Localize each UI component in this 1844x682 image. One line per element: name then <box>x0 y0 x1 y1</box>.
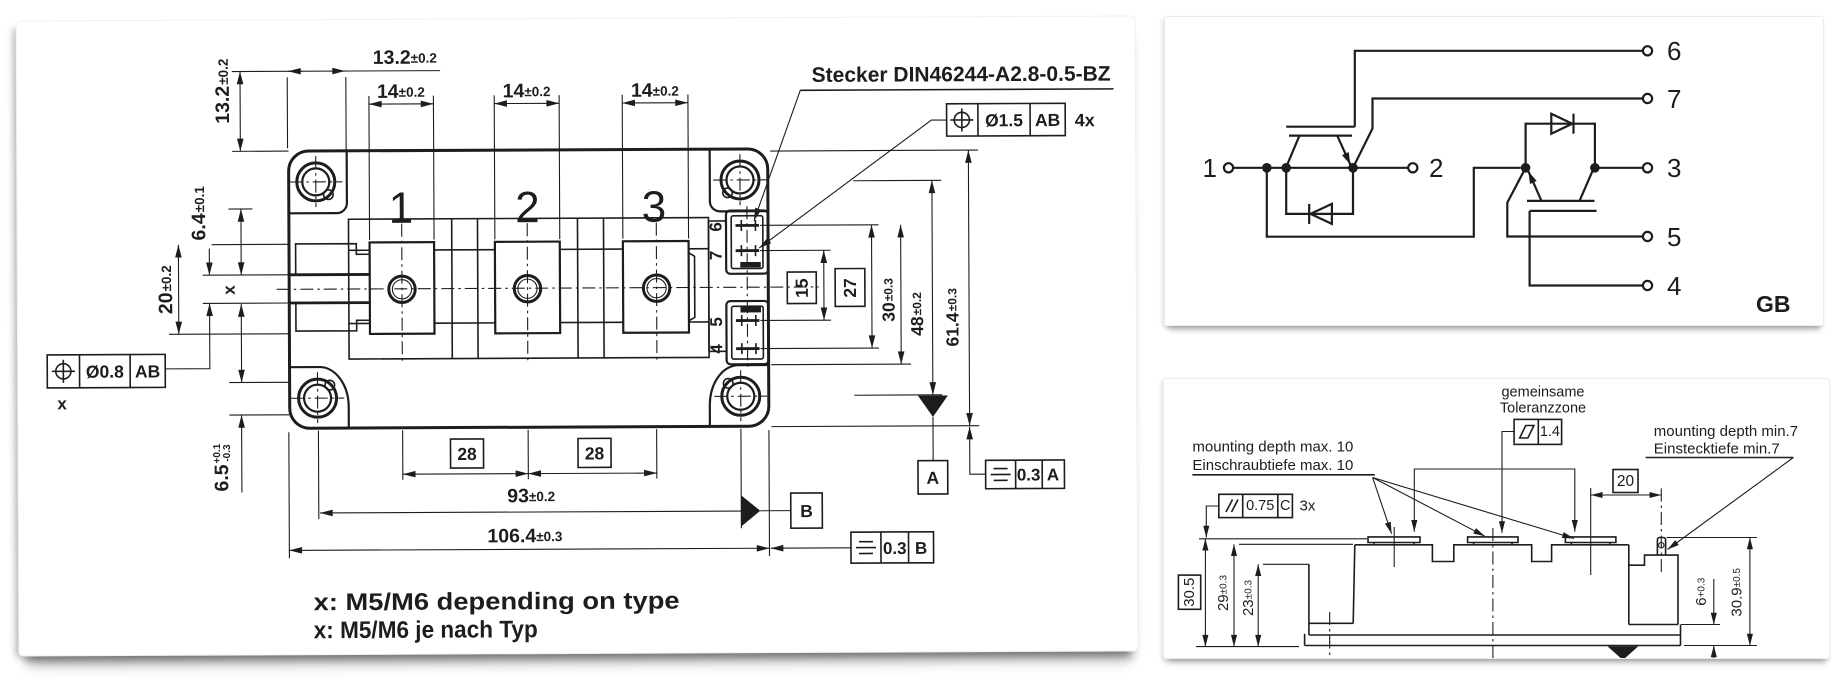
svg-text:1: 1 <box>389 184 414 233</box>
svg-text:5: 5 <box>707 317 726 327</box>
fin wall 1 <box>451 219 454 359</box>
dim 27 box label <box>835 268 865 306</box>
terminal 5 <box>1643 232 1652 241</box>
module top edge extension left <box>232 150 288 152</box>
diode D2 triangle <box>1551 114 1572 134</box>
dim 13.2 horizontal arrows <box>288 70 302 72</box>
key bar block 6/7 <box>740 262 761 267</box>
svg-text:5: 5 <box>1667 222 1681 252</box>
pin 6 blade <box>735 220 759 231</box>
svg-text:20: 20 <box>1617 473 1635 490</box>
diode D1 loop wires <box>1286 168 1353 214</box>
IGBT Q1 emitter leg with arrow <box>1337 136 1350 165</box>
svg-text:106.4±0.3: 106.4±0.3 <box>487 525 563 547</box>
svg-text:61.4±0.3: 61.4±0.3 <box>942 288 962 347</box>
frame 1.4 leader to pad2 <box>1502 432 1514 534</box>
dim 6.5 upper arrow / x lower column <box>240 304 242 382</box>
svg-text:6: 6 <box>1667 36 1681 66</box>
connector block 6/7 outer <box>726 210 768 273</box>
screw hole terminal 1 <box>389 276 416 303</box>
svg-text:93±0.2: 93±0.2 <box>507 485 555 507</box>
pin 7 blade <box>736 245 760 256</box>
svg-text:4: 4 <box>707 344 726 354</box>
corner block top-right <box>710 149 768 211</box>
Stecker underline <box>800 89 1113 90</box>
slot lines between blocks lower <box>349 322 709 324</box>
svg-text:4: 4 <box>1667 271 1681 301</box>
wire gate Q2 to pin 4 <box>1530 211 1643 286</box>
svg-text:30±0.3: 30±0.3 <box>878 278 898 322</box>
svg-text:Ø0.8: Ø0.8 <box>86 362 124 382</box>
fin wall 4 <box>602 218 605 358</box>
corner block bottom-left <box>290 367 349 428</box>
pin 5 extension line <box>760 319 830 321</box>
svg-text:15: 15 <box>792 278 812 298</box>
svg-text:20±0.2: 20±0.2 <box>155 265 177 314</box>
diode D1 cathode bar <box>1308 204 1310 224</box>
Stecker leader to pin 6 <box>753 90 800 220</box>
left mounting hole centerline <box>1329 612 1331 656</box>
dim 6+0.3 line upper <box>1713 579 1715 625</box>
dim 93 extension left <box>317 431 319 519</box>
IGBT Q1 collector leg <box>1287 136 1300 166</box>
svg-text:0.3: 0.3 <box>883 539 907 558</box>
svg-text:14±0.2: 14±0.2 <box>503 80 551 102</box>
svg-text:A: A <box>926 468 939 488</box>
connector block 5/4 inner <box>732 306 764 359</box>
terminal pad 1 <box>1368 537 1420 543</box>
svg-text:4x: 4x <box>1075 110 1095 130</box>
svg-text:2: 2 <box>1429 153 1443 183</box>
svg-text:GB: GB <box>1756 291 1791 317</box>
svg-text:Einschraubtiefe max. 10: Einschraubtiefe max. 10 <box>1192 457 1353 474</box>
datum B box <box>791 493 823 528</box>
module centerline <box>1492 528 1494 659</box>
chamfer pad right of terminal 3 <box>689 253 695 321</box>
leader fan 2 <box>1373 478 1485 537</box>
IGBT Q2 collector leg <box>1580 171 1593 201</box>
terminal slot thick lines <box>289 274 370 303</box>
node E (junction dot right-right) <box>1590 163 1600 173</box>
dim 15 box label <box>787 272 816 304</box>
svg-text:x: M5/M6 depending on type: x: M5/M6 depending on type <box>314 588 680 617</box>
dim 13.2 horizontal: extension block edge <box>345 77 347 150</box>
dim 14 #3 extensions <box>621 95 624 239</box>
svg-text:48±0.2: 48±0.2 <box>907 292 927 336</box>
fastening pin <box>1657 538 1665 556</box>
svg-text:13.2±0.2: 13.2±0.2 <box>373 47 437 69</box>
dim 28 box b <box>578 438 611 467</box>
pin 5 blade <box>736 315 760 326</box>
dim 14 #2 extensions <box>493 95 496 239</box>
wire node A to right half (long link) <box>1267 168 1521 237</box>
dim 28 extension t3 <box>656 429 658 478</box>
wire pin1 to node <box>1233 167 1262 169</box>
IGBT Q2 gate bar <box>1530 210 1597 212</box>
pad3 centerline / 20-dim extension <box>1590 488 1592 575</box>
terminal pad 2 <box>1468 537 1518 543</box>
leader fan 3 <box>1373 478 1574 539</box>
terminal block 3 <box>623 241 689 333</box>
dim 28 extension t2 <box>527 430 529 479</box>
terminal 1 centerline <box>401 224 404 363</box>
terminal pad 3 <box>1565 537 1616 543</box>
dim 29 line <box>1233 544 1235 646</box>
dim 30 extension bottom <box>771 363 911 366</box>
position frame 0.8 <box>47 354 165 388</box>
svg-text:B: B <box>800 501 813 521</box>
mounting hole top-right <box>713 154 766 205</box>
terminal 2 <box>1408 163 1417 172</box>
wire aux emitter Q2 to pin 5 <box>1507 168 1643 237</box>
diode D2 cathode bar <box>1572 114 1574 134</box>
dim 6+0.3 line lower <box>1713 646 1715 659</box>
svg-text:C: C <box>1280 498 1290 514</box>
dim 14 #2 line with arrows <box>494 102 559 104</box>
dim 28 extension t1 <box>402 430 404 479</box>
node D (junction dot right-left) <box>1521 163 1531 173</box>
left ext line L1 <box>228 208 252 210</box>
svg-text:gemeinsame: gemeinsame <box>1501 385 1584 401</box>
plate cut-out to connectors <box>708 221 726 351</box>
frame 0.3 A leader <box>970 439 986 474</box>
main horizontal centerline <box>277 287 819 289</box>
svg-text:1: 1 <box>1203 153 1217 183</box>
left ext line L4 <box>203 302 289 304</box>
terminal block 2 <box>495 242 560 334</box>
dim 106.4 extension left <box>288 432 291 558</box>
svg-text:x: M5/M6 je nach Typ: x: M5/M6 je nach Typ <box>314 616 538 644</box>
svg-text:AB: AB <box>135 361 160 381</box>
dim 30.9 extensions <box>1667 537 1757 539</box>
screw hole terminal 3 <box>643 275 670 302</box>
svg-text:28: 28 <box>457 444 477 464</box>
svg-text:Ø1.5: Ø1.5 <box>985 110 1023 130</box>
svg-text:1.4: 1.4 <box>1540 424 1560 440</box>
housing left wall <box>1353 545 1355 624</box>
dim 28 line b <box>528 472 656 475</box>
node A (junction dot) <box>1262 163 1272 173</box>
frame 1.5 leader to pin 7 <box>759 120 948 248</box>
svg-text:6.5+0.1-0.3: 6.5+0.1-0.3 <box>211 443 233 491</box>
dim 20 line <box>177 245 179 334</box>
parallelism frame // 0.75 C <box>1219 494 1293 517</box>
left pocket lower <box>296 303 370 331</box>
svg-text:27: 27 <box>840 278 860 298</box>
pin 4 blade <box>736 343 760 354</box>
IGBT Q1 body bar <box>1289 135 1352 137</box>
frame 0.3 B <box>851 532 934 563</box>
mounting hole bottom-left <box>291 372 344 423</box>
wire gate Q1 to pin 6 <box>1355 51 1643 127</box>
connector block 5/4 outer <box>726 301 768 364</box>
pin 7 extension line <box>760 249 830 251</box>
svg-text:30.9±0.5: 30.9±0.5 <box>1728 568 1745 617</box>
dim 15 line <box>823 250 825 320</box>
dim x upper arrow <box>208 249 210 275</box>
dim 28 line a <box>403 473 528 476</box>
baseplate <box>1305 625 1681 646</box>
leader to pin <box>1668 458 1794 550</box>
pin 6 extension line <box>760 224 878 227</box>
dim 48 line <box>931 180 934 394</box>
terminal 2 centerline <box>526 223 529 362</box>
flatness zone frame 1.4 <box>1514 419 1562 444</box>
module outline <box>289 149 769 428</box>
svg-text:13.2±0.2: 13.2±0.2 <box>212 59 234 124</box>
dim 6+0.3 extensions <box>1681 624 1720 626</box>
dim 93 extension right / datum B <box>740 429 742 528</box>
svg-text:2: 2 <box>515 183 540 232</box>
fin wall 2 <box>476 219 479 359</box>
svg-text:A: A <box>1047 465 1059 484</box>
position symbol 1.5 <box>950 108 973 131</box>
svg-text:14±0.2: 14±0.2 <box>631 80 679 102</box>
svg-text:mounting depth max. 10: mounting depth max. 10 <box>1192 439 1353 456</box>
position frame 1.5 <box>947 103 1066 136</box>
svg-text:6: 6 <box>706 222 725 232</box>
svg-text:Stecker DIN46244-A2.8-0.5-BZ: Stecker DIN46244-A2.8-0.5-BZ <box>812 63 1111 87</box>
flange left wall <box>1308 564 1310 635</box>
mounting hole bottom-right <box>714 370 767 421</box>
underline <box>1646 457 1794 459</box>
svg-text:Einstecktiefe min.7: Einstecktiefe min.7 <box>1654 441 1780 458</box>
dim x lower arrow + leader to frame <box>165 303 210 369</box>
housing right wall <box>1629 545 1678 625</box>
mounting hole top-left <box>289 156 342 207</box>
frame 0.3 A <box>986 460 1065 489</box>
symmetry symbol B <box>856 542 876 554</box>
node C (emitter junction dot) <box>1348 163 1358 173</box>
svg-text:28: 28 <box>585 443 605 463</box>
dim 14 #1 line with arrows <box>369 103 433 105</box>
dim 13.2 horizontal line <box>232 70 440 73</box>
wire emitter Q1 to pin 7 <box>1353 99 1643 168</box>
svg-text:7: 7 <box>707 251 726 261</box>
dim 20 line <box>1591 494 1662 496</box>
datum A box <box>918 461 948 495</box>
connector centerline <box>746 206 749 368</box>
dim 61.4 extension top <box>770 149 978 152</box>
svg-text:6.4±0.1: 6.4±0.1 <box>188 186 210 241</box>
svg-text:3: 3 <box>1667 153 1681 183</box>
svg-text:AB: AB <box>1035 110 1060 130</box>
IGBT Q2 body bar <box>1527 200 1595 202</box>
datum A filled triangle <box>918 396 948 417</box>
svg-text:14±0.2: 14±0.2 <box>377 81 425 103</box>
parallelism frame leader <box>1206 506 1219 538</box>
svg-text:x: x <box>220 285 239 295</box>
corner block top-left <box>289 151 347 213</box>
terminal 7 <box>1643 94 1652 103</box>
svg-text:0.3: 0.3 <box>1017 465 1041 484</box>
dim 30 line <box>900 225 903 364</box>
center plate <box>348 218 709 359</box>
dim 61.4 extension bottom <box>771 425 979 428</box>
datum B filled triangle <box>741 495 760 526</box>
pin 4 extension line <box>761 347 879 350</box>
diode D1 triangle <box>1311 204 1332 224</box>
datum top reference line <box>1199 538 1367 540</box>
dim 28 box a <box>450 439 483 468</box>
dim 13.2 vertical line with arrows <box>239 72 241 152</box>
dim 30.9 line <box>1749 538 1751 646</box>
IGBT Q1 gate bar <box>1286 126 1355 128</box>
terminal 3 centerline <box>655 223 658 362</box>
frame 0.3 B leader <box>771 547 851 549</box>
dim 6.4 line <box>240 209 242 275</box>
position symbol <box>52 360 75 383</box>
dim 106.4 extension right <box>768 430 771 556</box>
terminal 4 <box>1643 281 1652 290</box>
svg-text:3: 3 <box>642 183 667 232</box>
dim 61.4 line <box>968 150 969 426</box>
dim 23 line <box>1257 564 1259 646</box>
left ext line L3 <box>203 274 289 276</box>
terminal 6 <box>1643 46 1652 55</box>
terminal block 1 <box>370 242 435 334</box>
dim 27 line <box>870 225 873 348</box>
dim 30.5 box label <box>1178 575 1200 609</box>
dim 23 extension <box>1263 563 1309 565</box>
wire to terminal 2 <box>1353 167 1408 169</box>
symmetry symbol A <box>991 469 1011 481</box>
datum C filled triangle <box>1607 646 1638 660</box>
dim 48 extension top <box>853 179 941 181</box>
node B (junction dot) <box>1281 163 1291 173</box>
diode D2 loop wires <box>1526 124 1595 168</box>
svg-text:0.75: 0.75 <box>1246 498 1274 514</box>
underline <box>1192 474 1374 476</box>
svg-text:7: 7 <box>1667 84 1681 114</box>
wire <box>1267 167 1286 169</box>
dim 29 extension <box>1239 543 1353 545</box>
pocket floor left <box>1309 622 1353 624</box>
svg-text:6+0.3: 6+0.3 <box>1693 577 1710 606</box>
svg-text:Toleranzzone: Toleranzzone <box>1500 401 1586 417</box>
svg-text:B: B <box>915 539 927 558</box>
dim 6.5 lower arrow <box>241 415 243 492</box>
pin hole <box>1659 543 1664 548</box>
dim 93 line <box>320 511 741 513</box>
left ext line L2 <box>212 243 289 245</box>
slot lines between blocks upper <box>349 249 709 251</box>
dim 20 box <box>1613 470 1638 493</box>
datum B stem <box>760 510 790 512</box>
wire to terminal 3 <box>1595 167 1643 169</box>
common tolerance zone bracket <box>1414 469 1575 532</box>
dim 14 #3 line with arrows <box>622 102 688 104</box>
svg-text:3x: 3x <box>1300 498 1316 515</box>
dim 30.5 line <box>1204 539 1206 647</box>
dim 14 #1 extensions <box>368 96 371 240</box>
svg-text:29±0.3: 29±0.3 <box>1215 575 1232 612</box>
terminal 3 <box>1643 163 1652 172</box>
svg-text:mounting depth min.7: mounting depth min.7 <box>1654 423 1798 440</box>
wire node B to emitter node <box>1286 167 1353 169</box>
datum A stem <box>932 417 934 461</box>
key bar block 5/4 <box>740 307 761 312</box>
screw hole terminal 2 <box>514 275 541 302</box>
left pocket upper <box>296 244 370 275</box>
svg-text:30.5: 30.5 <box>1181 578 1198 607</box>
IGBT Q2 emitter leg with arrow <box>1529 172 1542 201</box>
svg-text:23±0.3: 23±0.3 <box>1240 580 1257 617</box>
dim 6.5 extensions <box>229 381 289 383</box>
dimension baseline bottom left <box>1196 646 1299 648</box>
connector block 6/7 inner <box>731 216 763 269</box>
pin centerline <box>1660 489 1662 577</box>
leader fan 1 <box>1373 478 1392 534</box>
dim 13.2 horizontal: extension module left edge <box>286 77 288 148</box>
corner block bottom-right <box>710 365 769 426</box>
dim 48 extension bottom <box>854 394 942 396</box>
housing top surface with slots <box>1355 545 1629 562</box>
left ext line L5 <box>169 333 289 336</box>
pad1 centerline <box>1393 527 1395 567</box>
dim 106.4 line <box>289 548 769 550</box>
svg-text:x: x <box>57 394 67 413</box>
fin wall 3 <box>576 218 579 358</box>
